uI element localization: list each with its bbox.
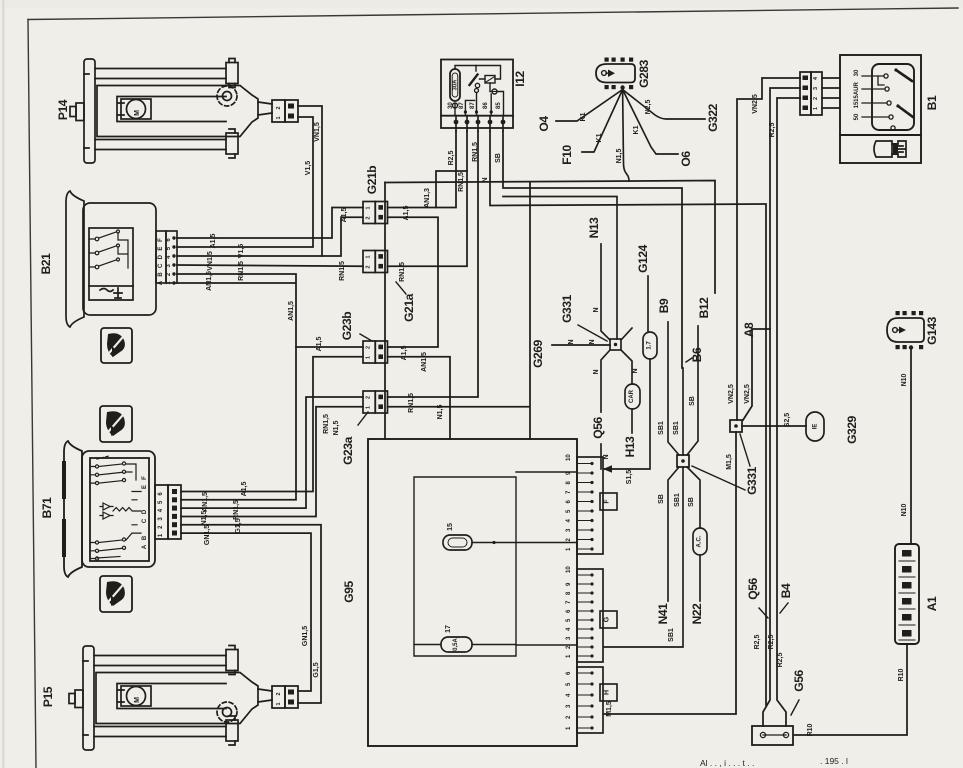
svg-text:G1,5: G1,5 xyxy=(235,518,242,533)
wire Q56 to F strip pin with arrow S1,5 xyxy=(600,444,602,469)
G143 horn xyxy=(887,318,924,342)
svg-text:N: N xyxy=(632,368,639,373)
wire N1,5 G23a right riser to bus and G95 xyxy=(388,182,531,439)
wire RN1,5 B21 to G21a xyxy=(177,265,363,266)
svg-text:Q56: Q56 xyxy=(746,578,760,600)
G283 fan wire N1,5 down joining bus A xyxy=(623,90,629,182)
svg-text:R2,5: R2,5 xyxy=(448,151,455,166)
svg-text:G23b: G23b xyxy=(340,312,354,340)
svg-text:G331: G331 xyxy=(745,466,759,494)
G56 ground connector xyxy=(752,726,793,745)
H connector strip xyxy=(577,667,603,733)
svg-text:D: D xyxy=(142,509,148,514)
svg-text:1: 1 xyxy=(366,406,372,409)
svg-text:30A: 30A xyxy=(453,79,459,91)
wire N10 G143 to A1 xyxy=(910,350,912,544)
svg-text:N41: N41 xyxy=(656,603,670,625)
svg-text:B6: B6 xyxy=(690,347,704,362)
svg-text:S1,5: S1,5 xyxy=(626,470,633,485)
bus C wire N from I12 pin86 xyxy=(490,131,766,705)
B71 icon pictogram bottom xyxy=(100,576,132,612)
wire node down-left to N41 xyxy=(668,467,679,601)
svg-text:A.C.: A.C. xyxy=(697,535,703,547)
svg-text:A1,5: A1,5 xyxy=(210,234,217,249)
connector G21a xyxy=(363,251,388,273)
svg-text:1: 1 xyxy=(813,107,819,110)
svg-text:N1,5: N1,5 xyxy=(616,149,623,164)
G331 leader to lower node xyxy=(692,466,745,490)
svg-text:B9: B9 xyxy=(657,298,671,313)
wire G23b right pin2 down into G95 xyxy=(388,357,451,439)
svg-text:87: 87 xyxy=(459,102,465,109)
svg-text:G269: G269 xyxy=(531,339,545,367)
B71 wire AN1,5 up xyxy=(181,347,296,500)
svg-text:H: H xyxy=(604,690,611,695)
svg-text:A1,5: A1,5 xyxy=(316,337,323,352)
svg-text:2: 2 xyxy=(276,106,282,109)
wire RN1,5 I12 pin87b down to G23a right xyxy=(388,131,479,397)
wire node down to G strip SB1 xyxy=(604,467,683,647)
svg-text:2: 2 xyxy=(276,692,282,695)
svg-text:N1,5: N1,5 xyxy=(437,405,444,420)
svg-text:B1: B1 xyxy=(925,95,939,110)
branch A8 wire to VN node xyxy=(743,329,770,420)
svg-text:SB1: SB1 xyxy=(674,493,681,507)
svg-text:1.7: 1.7 xyxy=(647,341,653,350)
svg-text:B4: B4 xyxy=(779,583,793,598)
wire G21b right pin2 down to G23b right xyxy=(388,217,439,347)
svg-text:87: 87 xyxy=(470,102,476,109)
lower junction node G331 xyxy=(677,455,689,467)
svg-text:A: A xyxy=(158,280,164,285)
svg-text:N: N xyxy=(482,177,489,182)
G283 fan wire to O4 xyxy=(556,90,623,122)
svg-text:(0,5A): (0,5A) xyxy=(453,636,459,653)
svg-text:O6: O6 xyxy=(679,151,693,167)
CAR oval xyxy=(625,384,640,409)
svg-text:N13: N13 xyxy=(587,217,601,239)
svg-text:A1,5: A1,5 xyxy=(403,206,410,221)
svg-text:VN1,5: VN1,5 xyxy=(207,251,214,271)
connector G23a xyxy=(363,391,388,413)
svg-text:R2,5: R2,5 xyxy=(777,653,784,668)
svg-text:SB: SB xyxy=(658,494,665,504)
svg-text:V1,5: V1,5 xyxy=(305,161,312,176)
svg-text:C: C xyxy=(142,518,148,523)
P15 connector 2-1 xyxy=(272,686,298,708)
svg-text:VN2,5: VN2,5 xyxy=(752,94,759,114)
svg-text:30: 30 xyxy=(448,102,454,109)
wires strip to B1 box xyxy=(822,78,840,108)
svg-text:E: E xyxy=(142,485,148,489)
bus A left riser into G95 top xyxy=(384,183,386,440)
svg-text:15AUR: 15AUR xyxy=(854,82,860,102)
svg-text:B: B xyxy=(158,272,164,277)
node top feed from bus xyxy=(503,197,617,340)
G95 control unit box xyxy=(368,439,577,746)
svg-text:IE: IE xyxy=(813,424,819,430)
svg-text:F10: F10 xyxy=(560,145,574,165)
svg-text:SB: SB xyxy=(689,396,696,406)
svg-text:N: N xyxy=(593,307,600,312)
svg-text:N2,5: N2,5 xyxy=(645,100,652,115)
svg-text:17: 17 xyxy=(445,625,452,633)
svg-text:R2,5: R2,5 xyxy=(769,123,776,138)
wire RN1,5 I12 pin87 down to G21a right xyxy=(388,131,468,266)
G95 inner wire channel xyxy=(414,477,516,656)
G283 fan wire to O6 xyxy=(623,90,678,155)
svg-text:P14: P14 xyxy=(56,99,70,120)
svg-text:86: 86 xyxy=(483,102,489,109)
B71 pin strip xyxy=(155,485,181,539)
wire M1,5 node down to H strip xyxy=(604,432,736,714)
B21 switch xyxy=(66,191,156,327)
svg-text:85: 85 xyxy=(496,102,502,109)
svg-text:B12: B12 xyxy=(697,297,711,319)
border frame left xyxy=(28,20,36,768)
svg-text:F: F xyxy=(142,476,148,480)
svg-text:SB1: SB1 xyxy=(668,628,675,642)
faint page caption text xyxy=(700,756,848,768)
svg-text:G: G xyxy=(604,616,611,622)
svg-text:H13: H13 xyxy=(623,436,637,458)
svg-text:1: 1 xyxy=(366,356,372,359)
svg-text:15: 15 xyxy=(854,101,860,108)
svg-text:GN1,5: GN1,5 xyxy=(302,626,309,646)
svg-text:RN1,5: RN1,5 xyxy=(408,393,415,413)
svg-text:R10: R10 xyxy=(898,668,905,681)
svg-text:50: 50 xyxy=(854,113,860,120)
svg-text:2: 2 xyxy=(366,396,372,399)
border frame top xyxy=(28,8,958,20)
B71 wire GN1,5 down to P15 xyxy=(181,533,311,691)
svg-text:2: 2 xyxy=(366,265,372,268)
svg-text:N10: N10 xyxy=(901,373,908,386)
G connector strip xyxy=(577,569,603,662)
svg-text:F: F xyxy=(158,238,164,242)
wire node up-left to B9 xyxy=(668,322,679,455)
wire node up to B6 xyxy=(682,368,684,455)
svg-text:B71: B71 xyxy=(40,497,54,519)
svg-text:M: M xyxy=(134,697,141,703)
svg-text:G21a: G21a xyxy=(402,293,416,321)
svg-text:N1,5: N1,5 xyxy=(333,421,340,436)
bus B wire SB from I12 pin85 xyxy=(503,131,682,368)
svg-text:GN1,5: GN1,5 xyxy=(204,525,211,545)
svg-text:1: 1 xyxy=(276,116,282,119)
svg-text:1: 1 xyxy=(366,255,372,258)
svg-text:VN1,5: VN1,5 xyxy=(314,122,321,142)
internal stubs to strips xyxy=(516,472,577,645)
svg-text:N1,5: N1,5 xyxy=(201,511,208,526)
B71 icon pictogram top xyxy=(100,406,132,442)
svg-text:G124: G124 xyxy=(636,244,650,272)
B71 switch xyxy=(64,441,155,577)
wire R2,5 I12 pin30 down to G21b right xyxy=(388,131,457,208)
svg-text:N: N xyxy=(603,454,610,459)
svg-text:2: 2 xyxy=(366,346,372,349)
svg-text:G329: G329 xyxy=(845,415,859,443)
svg-text:. 195 . l: . 195 . l xyxy=(820,756,848,766)
P15 washer pump motor xyxy=(69,646,272,751)
svg-text:I12: I12 xyxy=(513,71,527,87)
wire A1,5 B21 to G21b xyxy=(177,208,363,239)
G283 horn xyxy=(596,64,635,83)
svg-text:G283: G283 xyxy=(637,59,651,87)
svg-text:A: A xyxy=(142,544,148,549)
svg-text:G21b: G21b xyxy=(365,166,379,194)
B71 wire RN1,5 up to G23a xyxy=(181,397,363,508)
G329 inline connector xyxy=(806,412,824,441)
svg-text:Al . . , i . . . t . .: Al . . , i . . . t . . xyxy=(700,758,754,768)
B71 wire N1,5 up to G23a xyxy=(181,407,363,517)
svg-text:G23a: G23a xyxy=(341,436,355,464)
G283 fan wire to F10 xyxy=(582,90,623,153)
svg-text:15: 15 xyxy=(447,523,454,531)
svg-text:RN1,5: RN1,5 xyxy=(323,414,330,434)
svg-text:G95: G95 xyxy=(342,581,356,603)
svg-text:N22: N22 xyxy=(690,603,704,625)
svg-text:N10: N10 xyxy=(901,503,908,516)
svg-text:AN1,3: AN1,3 xyxy=(424,188,431,208)
svg-text:R2,5: R2,5 xyxy=(754,635,761,650)
F connector strip xyxy=(577,457,603,554)
svg-text:N: N xyxy=(589,339,596,344)
B1 connector strip 1-4 xyxy=(800,72,822,115)
svg-text:D: D xyxy=(158,254,164,259)
fuse 17 0,5A xyxy=(441,637,472,652)
wire VN1,5 from P14 pin1 xyxy=(177,106,322,256)
svg-text:G143: G143 xyxy=(925,316,939,344)
wire node to Q56 xyxy=(601,350,610,412)
svg-text:RN1,5: RN1,5 xyxy=(339,261,346,281)
svg-text:R10: R10 xyxy=(807,723,814,736)
svg-text:AN1,5: AN1,5 xyxy=(206,271,213,291)
P14 connector 2-1 xyxy=(272,100,298,122)
svg-text:RN1,5: RN1,5 xyxy=(238,261,245,281)
svg-text:G322: G322 xyxy=(706,103,720,131)
wire VN2,5 B1 pin3 long run to G56 xyxy=(763,88,800,726)
svg-text:VN2,5: VN2,5 xyxy=(744,384,751,404)
svg-text:K1: K1 xyxy=(633,125,640,134)
B71 wire G1,5 down to P15 xyxy=(181,525,321,703)
svg-text:SB1: SB1 xyxy=(673,421,680,435)
svg-text:N: N xyxy=(593,369,600,374)
svg-text:P15: P15 xyxy=(41,686,55,707)
node stub up-right xyxy=(621,328,632,340)
bus A horizontal to corner down at x715 xyxy=(385,181,715,294)
node left arm to G269 xyxy=(552,344,610,346)
svg-text:SB1: SB1 xyxy=(658,421,665,435)
svg-text:F: F xyxy=(604,499,611,504)
svg-text:1: 1 xyxy=(276,702,282,705)
svg-text:10: 10 xyxy=(566,566,572,573)
B1 ignition switch box xyxy=(840,55,921,163)
svg-text:A1,5: A1,5 xyxy=(341,208,348,223)
svg-text:AN1,5: AN1,5 xyxy=(421,352,428,372)
svg-text:M1,5: M1,5 xyxy=(726,454,733,470)
svg-text:G56: G56 xyxy=(792,670,806,692)
svg-text:C: C xyxy=(158,263,164,268)
svg-text:CAR: CAR xyxy=(629,389,635,403)
svg-text:R2,5: R2,5 xyxy=(768,635,775,650)
svg-text:E: E xyxy=(158,247,164,251)
svg-text:2: 2 xyxy=(813,97,819,100)
connector G23b xyxy=(363,341,388,363)
B21 icon pictogram xyxy=(101,328,132,363)
wire VN2,5 B1 pin4 to VN node xyxy=(737,78,800,420)
svg-text:SB: SB xyxy=(495,153,502,163)
svg-text:G331: G331 xyxy=(560,294,574,322)
svg-text:A1,5: A1,5 xyxy=(401,346,408,361)
svg-text:2: 2 xyxy=(366,216,372,219)
svg-text:RN1,5: RN1,5 xyxy=(399,262,406,282)
svg-text:Q56: Q56 xyxy=(591,417,605,439)
svg-text:B21: B21 xyxy=(39,253,53,275)
fuse 15 xyxy=(443,535,472,550)
svg-text:B: B xyxy=(142,535,148,540)
P14 washer pump motor xyxy=(70,59,272,164)
svg-text:3: 3 xyxy=(813,87,819,90)
svg-text:S2,5: S2,5 xyxy=(784,413,791,428)
svg-text:A1: A1 xyxy=(925,596,939,611)
svg-text:M1,5: M1,5 xyxy=(606,701,613,717)
wire R10 A1 to G56 xyxy=(794,644,907,735)
svg-text:SB: SB xyxy=(688,497,695,507)
B71 wire A1,5 up to G23b xyxy=(181,357,363,492)
wire node down-right to A.C. oval to N22 xyxy=(687,467,700,528)
connector G21b xyxy=(363,202,388,224)
A1 fuse box xyxy=(895,544,919,644)
svg-text:VN2,5: VN2,5 xyxy=(728,384,735,404)
G283 fan wire N2,5 to G322 xyxy=(623,90,705,120)
svg-text:AN1,5: AN1,5 xyxy=(288,301,295,321)
svg-text:K1: K1 xyxy=(580,112,587,121)
svg-text:A1,5: A1,5 xyxy=(241,482,248,497)
svg-text:M: M xyxy=(134,110,141,116)
wire node to CAR oval to H13 xyxy=(621,350,632,384)
upper junction node G331/G269 xyxy=(610,339,621,350)
svg-text:K1: K1 xyxy=(596,133,603,142)
svg-text:10: 10 xyxy=(566,454,572,461)
VN junction node G331 xyxy=(730,420,742,432)
svg-text:30: 30 xyxy=(854,69,860,76)
svg-text:N: N xyxy=(568,339,575,344)
wire AN1,5 B21 down to G23b xyxy=(177,274,363,347)
B21 pin strip A-F 1-6 xyxy=(156,231,177,283)
svg-text:1: 1 xyxy=(366,206,372,209)
svg-text:G1,5: G1,5 xyxy=(313,662,320,677)
B1 key pictogram xyxy=(874,141,906,157)
I12 relay fuse box xyxy=(441,60,513,129)
svg-text:V1,5: V1,5 xyxy=(238,244,245,259)
wire V1,5 from P14 pin2 xyxy=(177,117,313,247)
svg-text:O4: O4 xyxy=(537,116,551,132)
svg-text:A8: A8 xyxy=(742,322,756,337)
wire S2,5 node to G329 xyxy=(742,425,806,427)
wire R2,5 B1 pin2 long run to G56 xyxy=(777,98,800,726)
svg-text:RN1,5: RN1,5 xyxy=(472,142,479,162)
